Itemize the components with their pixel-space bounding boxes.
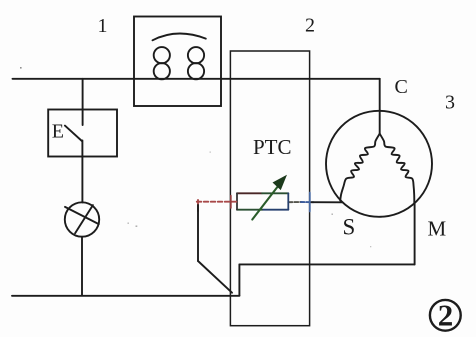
motor winding right branch (380, 134, 415, 203)
svg-text:2: 2 (438, 298, 454, 333)
relay coil arc (153, 33, 206, 40)
PTC arrowhead (273, 176, 286, 190)
red tick on box 2 left edge (230, 196, 232, 209)
wire M branch to bottom junction (238, 264, 240, 295)
PTC box 2 enclosure (230, 51, 309, 326)
scan speckles (20, 67, 371, 247)
relay coil left lower circle (154, 63, 170, 79)
svg-text:S: S (343, 215, 356, 240)
svg-text:C: C (395, 76, 408, 98)
motor winding left branch (340, 134, 380, 201)
PTC resistor body (237, 193, 288, 209)
svg-text:2: 2 (305, 15, 315, 37)
svg-text:1: 1 (98, 15, 108, 37)
wire M horizontal run (239, 263, 414, 265)
relay box 1 enclosure (134, 17, 221, 107)
PTC arrow shaft (252, 181, 282, 220)
wire PTC left lead red drop (197, 200, 199, 211)
wire S lead blue part (301, 201, 314, 203)
lamp circle (65, 202, 99, 236)
svg-text:M: M (428, 217, 447, 241)
wire PTC left lead red dashed (197, 201, 237, 203)
thermostat E box (48, 110, 117, 157)
wire M lead down (414, 203, 416, 264)
relay coil right lower circle (188, 63, 204, 79)
wire PTC branch down (197, 205, 199, 261)
relay coil right upper circle (188, 47, 204, 63)
svg-text:3: 3 (445, 91, 455, 113)
switch E blade (65, 126, 82, 141)
switch E top contact (82, 110, 84, 126)
figure number circled 2 (430, 300, 461, 331)
wire S lead to motor (311, 201, 342, 203)
lamp cross stroke 1 (65, 207, 99, 224)
svg-text:PTC: PTC (253, 135, 292, 159)
wire switch to lamp (81, 141, 83, 203)
relay coil left upper circle (154, 47, 170, 63)
blue tick on box 2 right edge (309, 193, 311, 212)
wire top supply rail (13, 78, 380, 80)
wire PTC branch diagonal to bottom junction (198, 261, 232, 293)
lamp cross stroke 2 (75, 205, 93, 233)
motor circle 3 (326, 111, 432, 217)
wire bottom supply rail (12, 295, 239, 297)
wire E branch from top rail (82, 79, 84, 110)
wire S lead gray part (288, 201, 301, 203)
wire motor C lead (379, 79, 381, 134)
wire lamp to bottom rail (81, 237, 83, 296)
svg-text:E: E (52, 121, 64, 143)
